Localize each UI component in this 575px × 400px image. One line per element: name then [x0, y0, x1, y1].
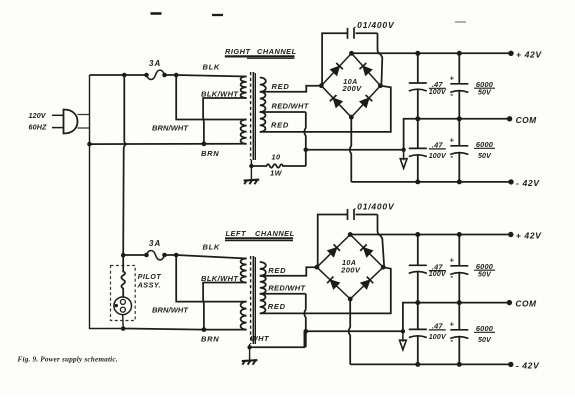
- svg-text:50V: 50V: [478, 90, 492, 97]
- svg-text:+: +: [450, 74, 455, 83]
- svg-text:+: +: [450, 136, 455, 145]
- svg-text:RED/WHT: RED/WHT: [268, 283, 306, 292]
- svg-text:RED: RED: [271, 120, 289, 129]
- svg-text:BLK: BLK: [203, 243, 221, 252]
- svg-text:10: 10: [272, 153, 281, 162]
- svg-text:+ 42V: + 42V: [516, 231, 542, 241]
- svg-text:+: +: [450, 256, 455, 265]
- svg-text:100V: 100V: [429, 153, 447, 160]
- svg-text:BLK: BLK: [203, 63, 221, 72]
- svg-text:100V: 100V: [429, 334, 447, 341]
- svg-text:100V: 100V: [429, 271, 447, 278]
- svg-text:Fig. 9. Power supply schemati: Fig. 9. Power supply schematic.: [18, 356, 118, 364]
- svg-text:BLK/WHT: BLK/WHT: [201, 90, 239, 99]
- svg-text:LEFT: LEFT: [226, 229, 247, 238]
- svg-text:RED/WHT: RED/WHT: [272, 102, 310, 111]
- svg-text:RED: RED: [268, 302, 286, 311]
- svg-text:60HZ: 60HZ: [29, 123, 47, 132]
- svg-text:6000: 6000: [476, 324, 494, 333]
- svg-text:-: -: [450, 151, 453, 161]
- svg-text:-: -: [450, 89, 453, 99]
- svg-text:3A: 3A: [149, 239, 161, 248]
- svg-text:50V: 50V: [478, 153, 492, 160]
- svg-text:RED: RED: [268, 266, 286, 275]
- svg-text:6000: 6000: [476, 140, 494, 149]
- svg-text:.01/400V: .01/400V: [354, 201, 395, 211]
- svg-text:COM: COM: [516, 115, 538, 125]
- svg-text:CHANNEL: CHANNEL: [257, 47, 297, 56]
- svg-text:- 42V: - 42V: [516, 178, 540, 188]
- svg-text:3A: 3A: [149, 59, 161, 68]
- svg-text:-: -: [450, 271, 453, 281]
- svg-text:+ 42V: + 42V: [516, 50, 542, 60]
- svg-text:RIGHT: RIGHT: [225, 47, 251, 56]
- svg-text:.01/400V: .01/400V: [354, 20, 395, 30]
- svg-text:+: +: [450, 320, 455, 329]
- svg-text:100V: 100V: [429, 89, 447, 96]
- svg-text:BRN: BRN: [201, 149, 219, 158]
- svg-text:200V: 200V: [340, 265, 361, 274]
- svg-text:50V: 50V: [478, 337, 492, 344]
- svg-text:120V: 120V: [29, 111, 47, 120]
- svg-text:.47: .47: [432, 80, 444, 89]
- svg-text:.47: .47: [432, 322, 444, 331]
- svg-text:200V: 200V: [341, 84, 362, 93]
- svg-text:RED: RED: [272, 82, 290, 91]
- svg-text:WHT: WHT: [251, 334, 270, 343]
- svg-text:.47: .47: [432, 262, 444, 271]
- svg-text:COM: COM: [515, 299, 537, 309]
- svg-text:BRN: BRN: [201, 335, 219, 344]
- svg-text:BRN/WHT: BRN/WHT: [152, 123, 189, 132]
- svg-text:BLK/WHT: BLK/WHT: [201, 274, 239, 283]
- svg-text:BRN/WHT: BRN/WHT: [152, 305, 189, 314]
- svg-text:CHANNEL: CHANNEL: [255, 229, 295, 238]
- svg-text:50V: 50V: [478, 272, 492, 279]
- svg-text:.47: .47: [432, 141, 444, 150]
- svg-text:-: -: [450, 335, 453, 345]
- svg-text:- 42V: - 42V: [516, 361, 540, 371]
- svg-text:ASSY.: ASSY.: [137, 281, 161, 290]
- svg-text:1W: 1W: [270, 169, 282, 178]
